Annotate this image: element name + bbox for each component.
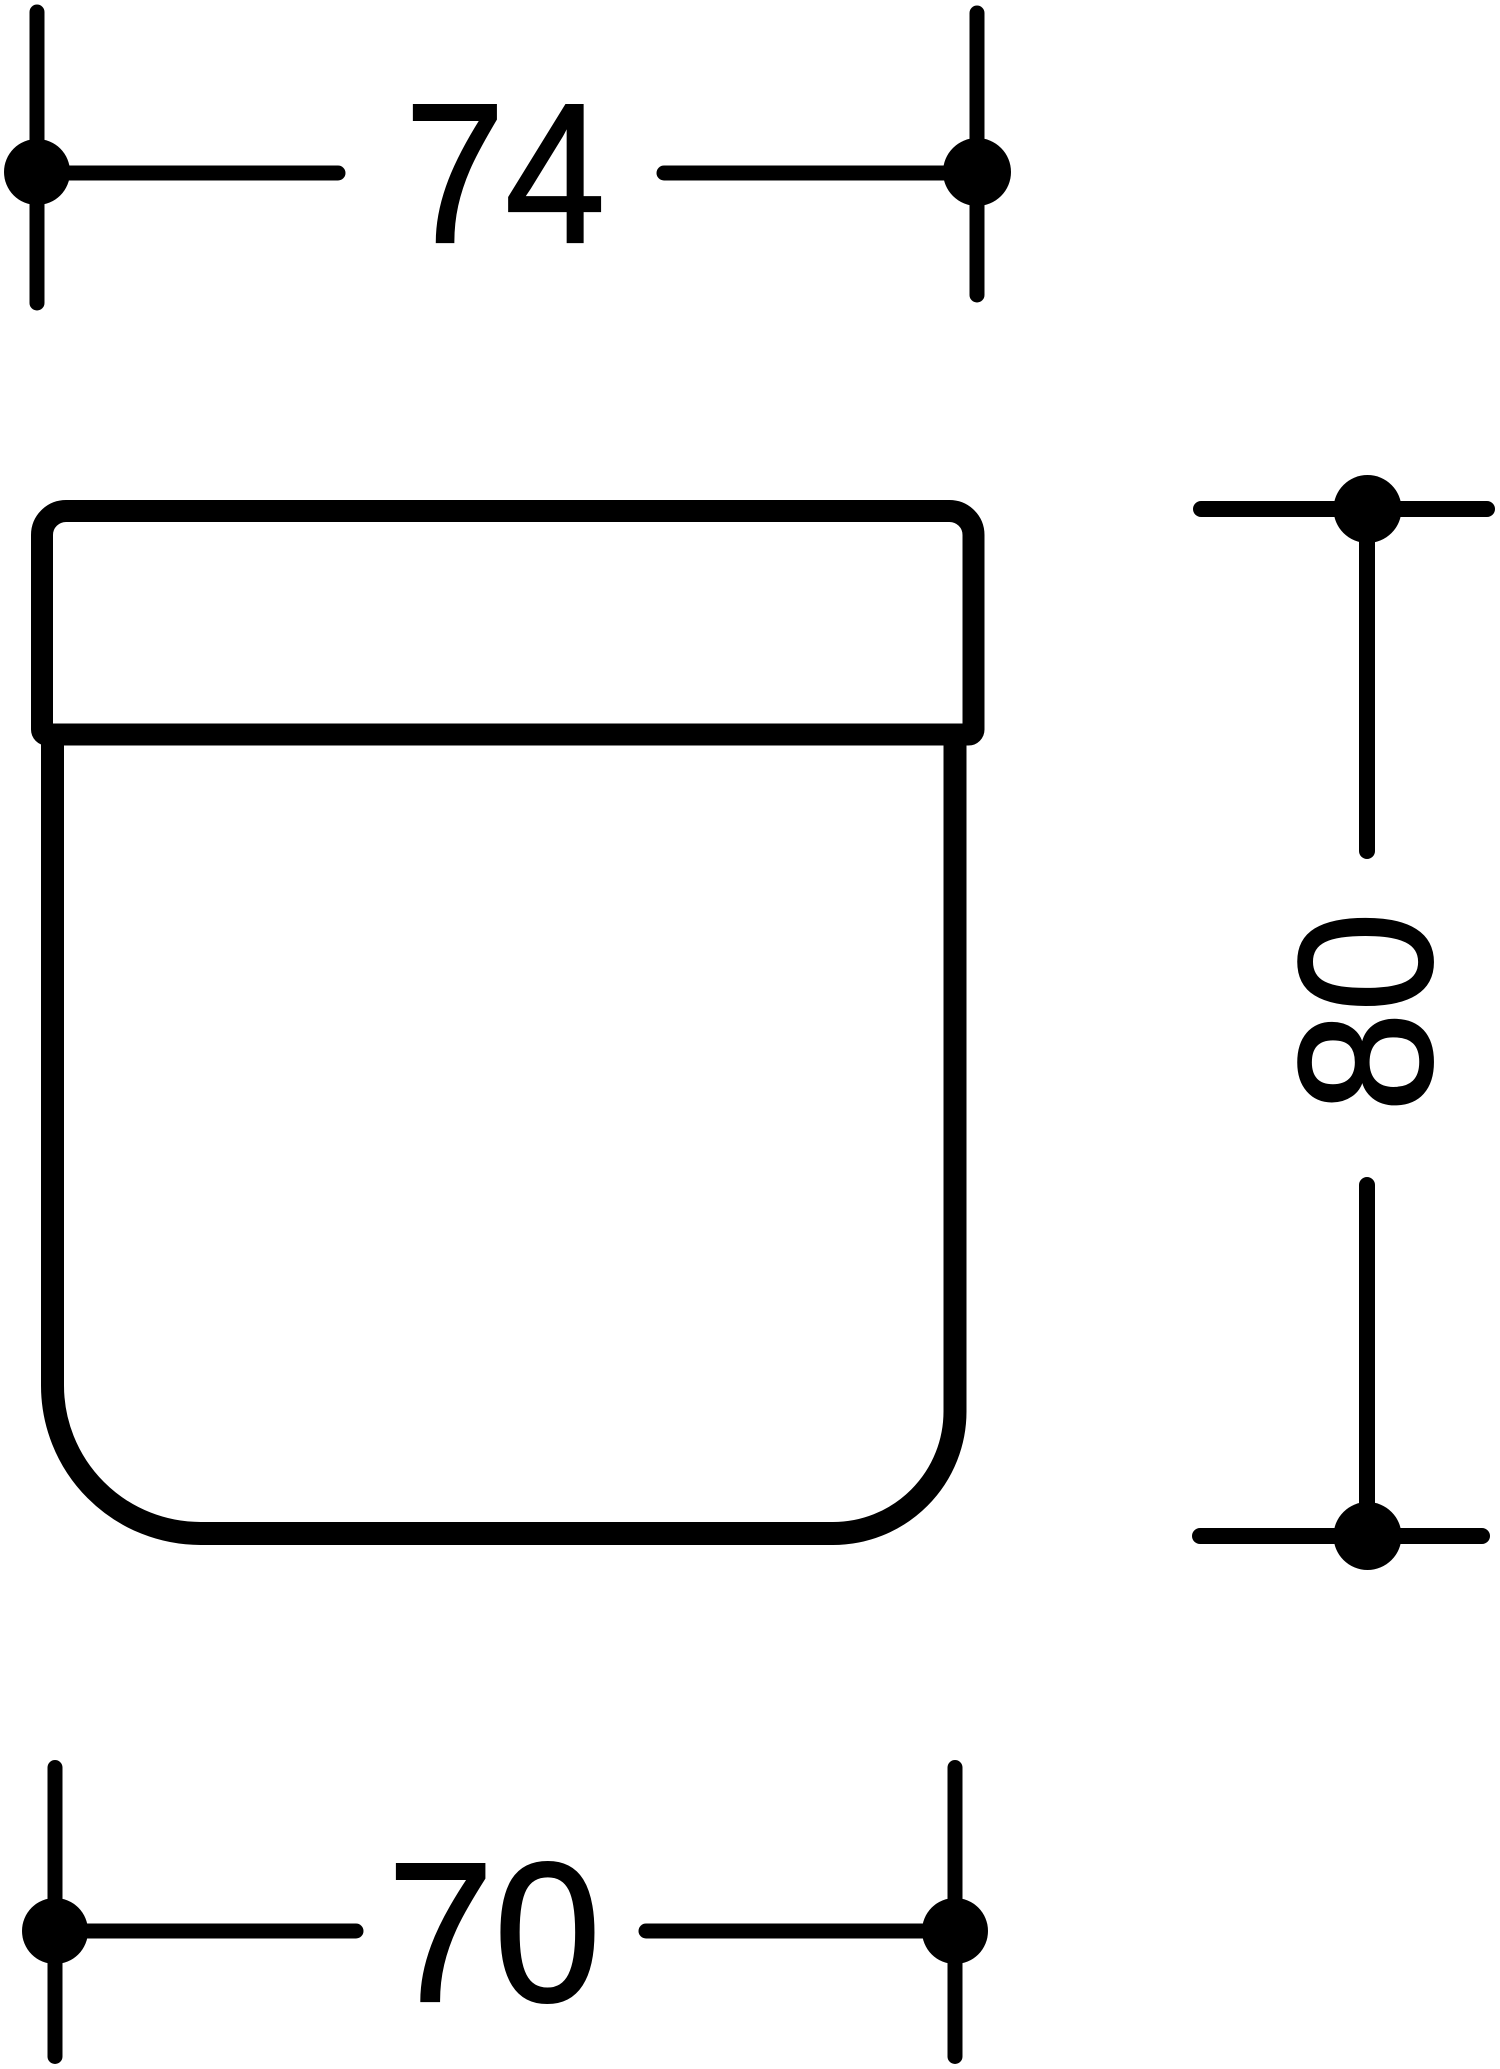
svg-text:70: 70 [387, 1822, 601, 2044]
dimension point top-left [4, 139, 70, 205]
svg-text:74: 74 [405, 63, 606, 285]
extension line right-top (height 80) [1201, 501, 1487, 517]
extension line bottom-left (width 70) [48, 1768, 63, 2057]
dimension line 74 left segment [44, 166, 338, 181]
dimension line 74 right segment [664, 166, 970, 181]
extension line bottom-right (width 70) [948, 1768, 963, 2057]
lid of holder [42, 511, 974, 735]
dimension line 70 right segment [646, 1924, 948, 1939]
extension line top-left (width 74) [30, 12, 45, 303]
dimension line 80 lower segment [1359, 1185, 1375, 1536]
dimension line 70 left segment [62, 1924, 356, 1939]
dimension point top-right [943, 138, 1011, 206]
dimension point bottom-left [22, 1898, 88, 1964]
dimension point bottom-right [922, 1898, 988, 1964]
extension line top-right (width 74) [970, 13, 985, 295]
dimension point right-bottom [1334, 1502, 1402, 1570]
extension line right-bottom (height 80) [1200, 1528, 1482, 1544]
body of holder [53, 740, 956, 1534]
svg-text:80: 80 [1260, 912, 1472, 1112]
dimension line 80 upper segment [1359, 509, 1375, 851]
dimension point right-top [1334, 475, 1402, 543]
